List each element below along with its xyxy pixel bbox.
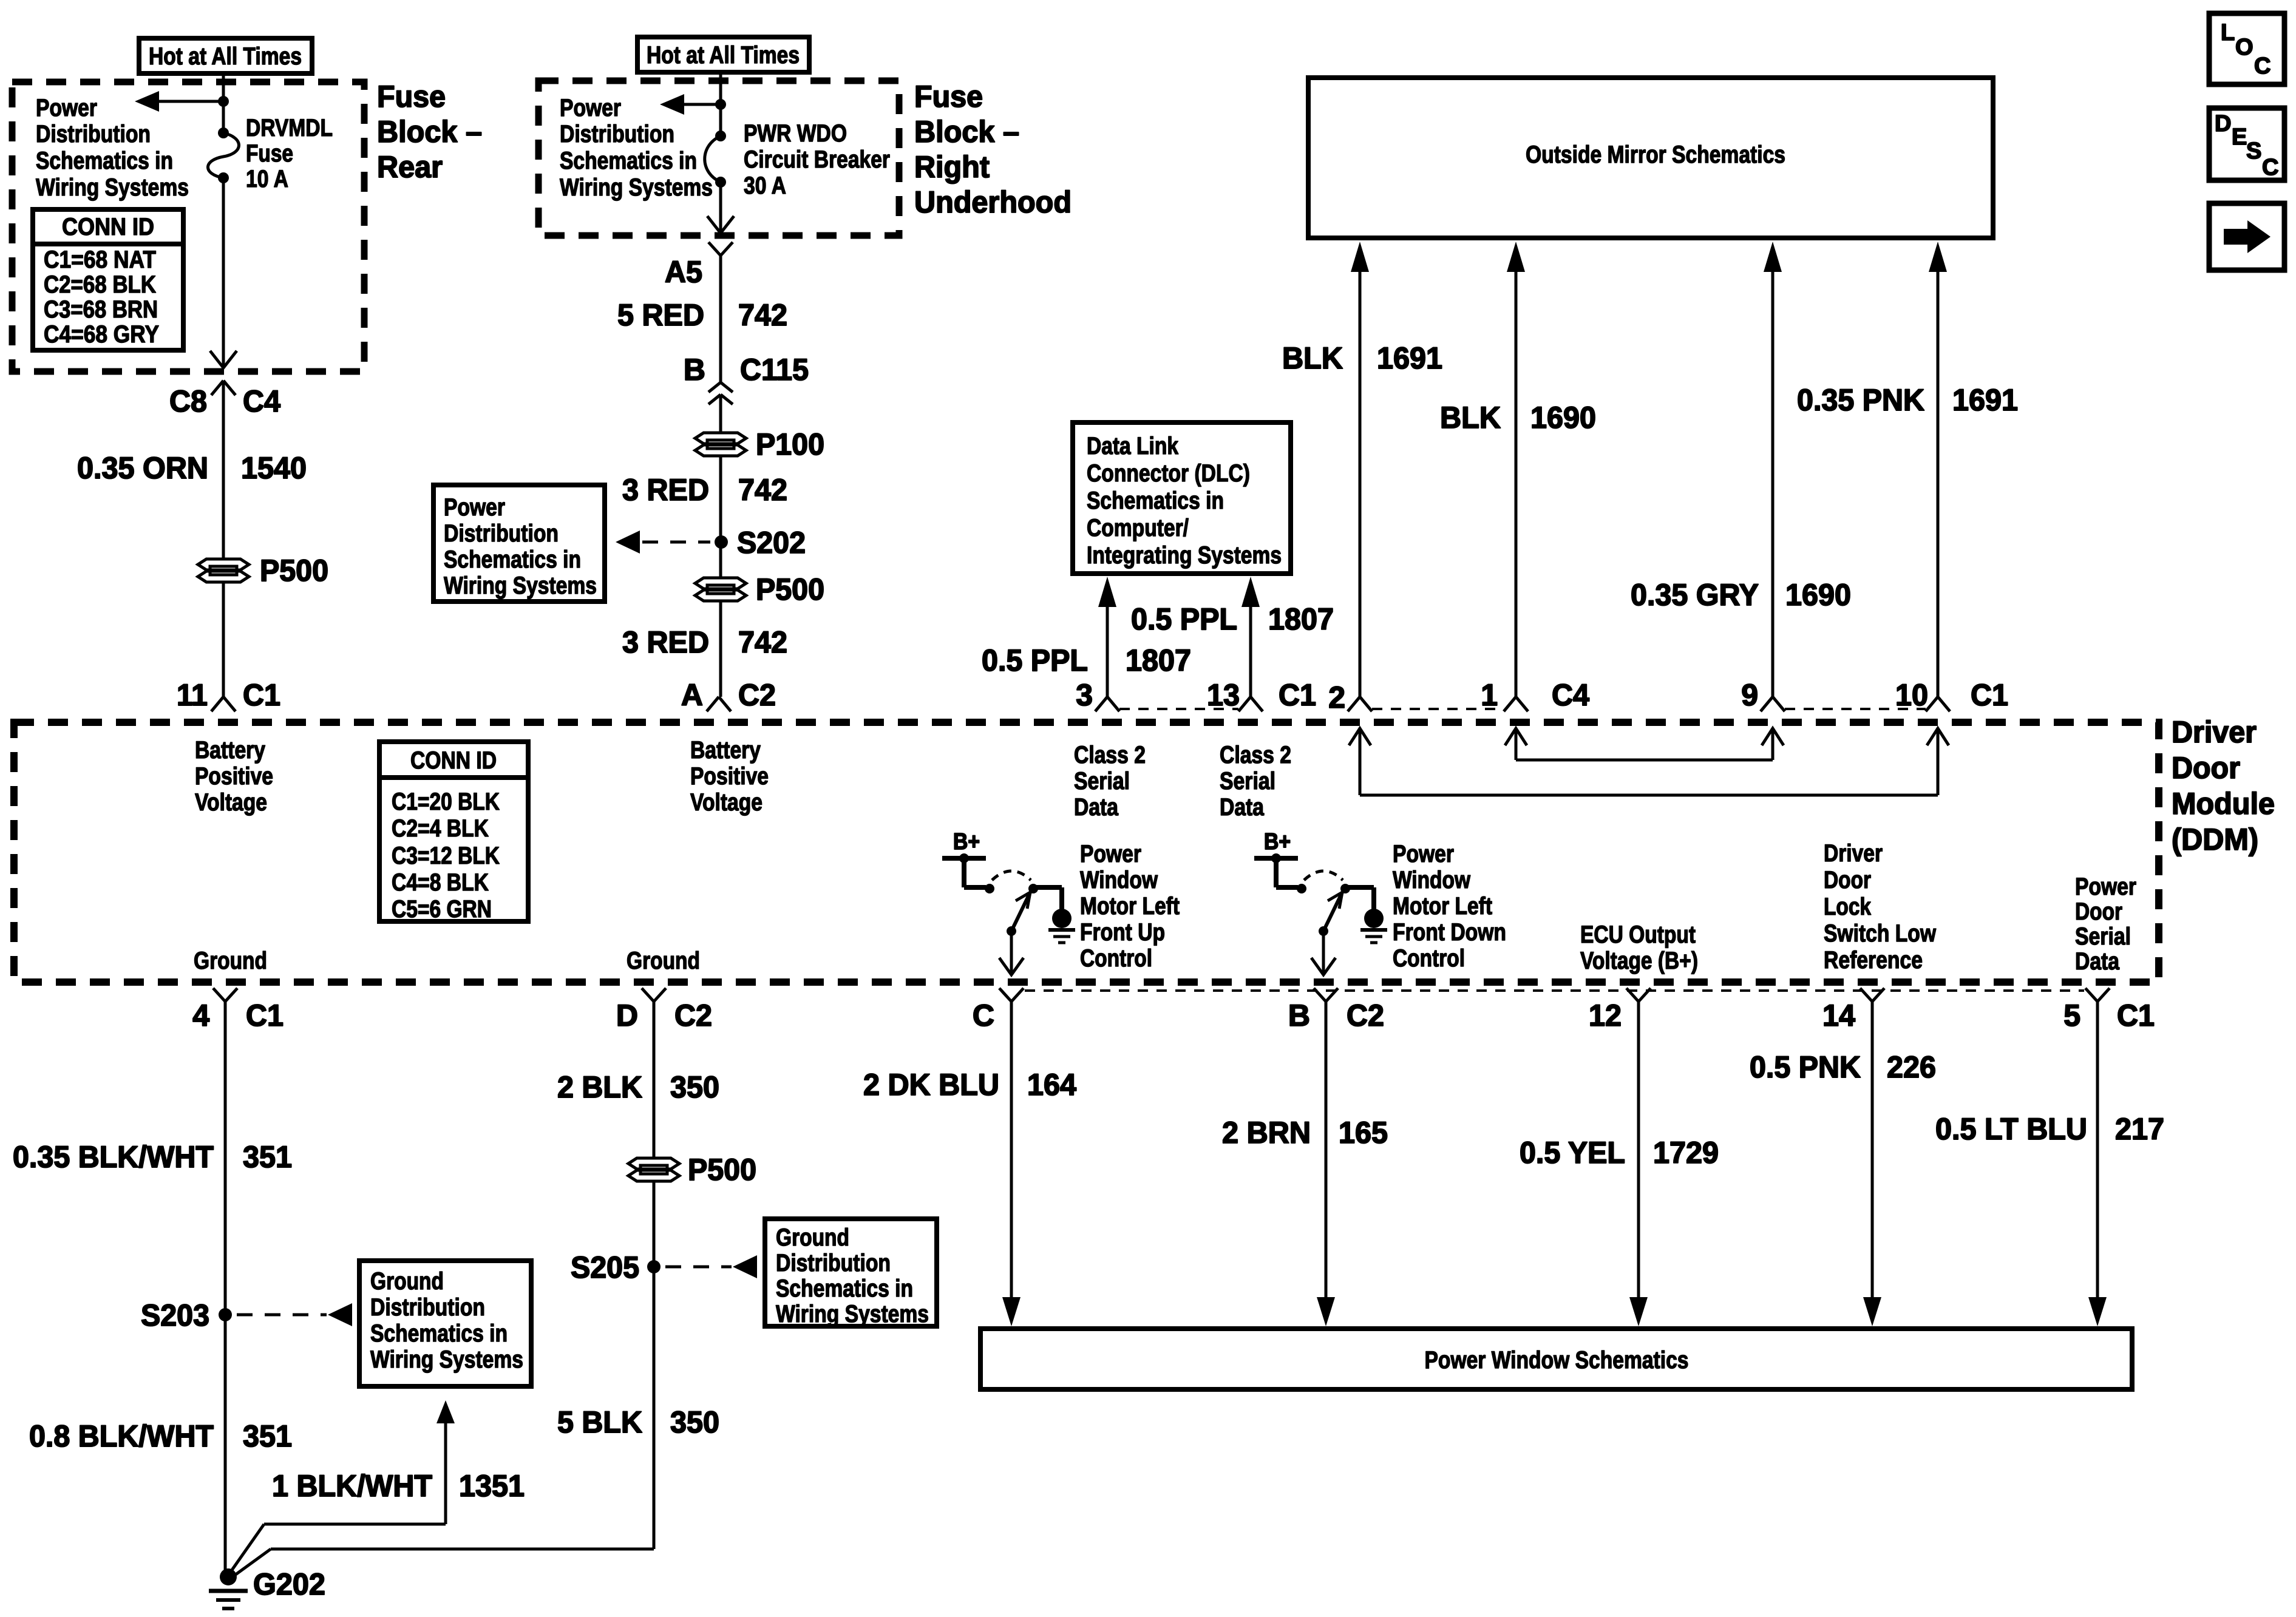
fuse block rear dashed enclosure	[12, 82, 364, 371]
wire pin 3 up to DLC box with arrow	[1098, 577, 1116, 697]
svg-text:C1=20 BLK: C1=20 BLK	[392, 788, 500, 815]
svg-text:Control: Control	[1393, 945, 1465, 972]
connector dashed link pins 3-13	[1119, 708, 1238, 710]
svg-text:Data: Data	[2075, 948, 2120, 975]
svg-text:5 BLK: 5 BLK	[557, 1405, 642, 1439]
ground G202 symbol	[209, 1568, 248, 1609]
svg-text:DRVMDL: DRVMDL	[246, 115, 333, 141]
svg-text:CONN ID: CONN ID	[410, 747, 497, 774]
svg-text:Front Down: Front Down	[1393, 919, 1506, 946]
svg-text:C4=8 BLK: C4=8 BLK	[392, 869, 489, 896]
switch window up control: B+ feed	[942, 829, 986, 887]
svg-text:30 A: 30 A	[744, 172, 786, 199]
wire pin 5 to power window schematics with arrow	[2088, 1002, 2107, 1326]
svg-text:C: C	[973, 998, 994, 1032]
svg-text:0.35 PNK: 0.35 PNK	[1797, 383, 1924, 417]
internal wire switch to pin C with arrow	[999, 931, 1024, 975]
label box "Hot at All Times" (left)	[139, 38, 312, 73]
svg-text:Wiring Systems: Wiring Systems	[560, 174, 713, 201]
svg-text:1807: 1807	[1268, 602, 1334, 636]
wire pin 1 up to mirror box with arrow	[1507, 242, 1525, 697]
svg-text:Block –: Block –	[377, 115, 482, 149]
connector dashed link bottom pins C..5	[1025, 989, 2084, 992]
svg-text:S205: S205	[571, 1250, 639, 1284]
svg-text:0.35 GRY: 0.35 GRY	[1631, 578, 1759, 612]
connector dashed link pins 2-1	[1372, 708, 1504, 710]
svg-text:Front Up: Front Up	[1080, 919, 1165, 946]
svg-text:11: 11	[177, 678, 208, 712]
svg-text:3 RED: 3 RED	[622, 625, 709, 659]
internal up arrow at pin 2	[1349, 728, 1371, 795]
svg-text:Battery: Battery	[690, 737, 761, 764]
svg-text:Voltage: Voltage	[195, 789, 267, 816]
svg-text:4: 4	[192, 998, 209, 1032]
grommet P500 (chain 2)	[695, 578, 746, 601]
svg-text:2 DK BLU: 2 DK BLU	[863, 1068, 999, 1102]
svg-text:351: 351	[243, 1140, 292, 1174]
wire label "BLK 1690"	[1440, 401, 1596, 435]
svg-text:C1: C1	[1971, 678, 2008, 712]
wire breaker to exit of fuse block	[719, 182, 722, 233]
svg-text:Serial: Serial	[1220, 768, 1275, 795]
wire label "5 BLK 350"	[557, 1405, 719, 1439]
note box ground distribution schematics (S205)	[765, 1219, 937, 1327]
svg-text:C2: C2	[738, 678, 776, 712]
svg-text:1690: 1690	[1785, 578, 1851, 612]
svg-text:Power: Power	[560, 95, 621, 121]
svg-text:Ground: Ground	[776, 1224, 849, 1251]
wire 1 BLK/WHT 1351 up into ground note box with arrow	[227, 1400, 455, 1577]
splice S205 junction dot	[647, 1260, 661, 1273]
junction dot on feed wire (chain 2)	[715, 99, 726, 110]
wire label "0.35 BLK/WHT 351"	[13, 1140, 292, 1174]
wire pin 10 up to mirror box with arrow	[1929, 242, 1947, 697]
svg-text:Fuse: Fuse	[246, 140, 293, 167]
wire label "0.35 GRY 1690"	[1631, 578, 1851, 612]
svg-text:5 RED: 5 RED	[617, 298, 704, 332]
svg-text:0.5 LT BLU: 0.5 LT BLU	[1935, 1112, 2087, 1146]
note box Data Link Connector (DLC) schematics	[1073, 422, 1291, 574]
svg-text:Module: Module	[2172, 787, 2275, 821]
svg-text:Power: Power	[2075, 873, 2136, 900]
wire label "0.35 PNK 1691"	[1797, 383, 2018, 417]
svg-text:Schematics in: Schematics in	[370, 1320, 508, 1347]
pin 2 chevron at DDM	[1348, 697, 1372, 711]
switch window down control: contacts and arc	[1297, 871, 1350, 893]
note box ground distribution schematics (S203)	[359, 1261, 531, 1386]
note box power distribution schematics (S202)	[433, 485, 605, 602]
note text power distribution schematics (fuse block rear)	[36, 95, 189, 201]
svg-text:Data: Data	[1220, 794, 1265, 821]
svg-text:C4: C4	[243, 384, 280, 418]
wire P500 to DDM pin A	[719, 600, 722, 697]
ground wire pin 4 to G202	[224, 1002, 227, 1576]
svg-text:S203: S203	[141, 1298, 209, 1332]
svg-text:Ground: Ground	[370, 1268, 444, 1295]
svg-text:226: 226	[1887, 1050, 1936, 1084]
svg-text:Serial: Serial	[2075, 923, 2131, 950]
wire from Hot at All Times down to junction	[222, 73, 225, 133]
svg-text:C1: C1	[246, 998, 284, 1032]
svg-text:Right: Right	[914, 150, 990, 184]
svg-text:350: 350	[670, 1070, 719, 1104]
svg-text:Hot at All Times: Hot at All Times	[149, 43, 302, 70]
svg-text:1540: 1540	[241, 451, 307, 485]
connector dashed link pins 9-10	[1785, 708, 1926, 710]
svg-text:2: 2	[1328, 680, 1345, 714]
wire label "2 DK BLU 164"	[863, 1068, 1076, 1102]
svg-text:0.5 PPL: 0.5 PPL	[1131, 602, 1237, 636]
wire label "0.8 BLK/WHT 351"	[29, 1419, 292, 1453]
internal up arrow at pin 10	[1927, 728, 1949, 795]
node label class 2 serial data (pin 13)	[1220, 742, 1291, 821]
connector C115 double chevron	[708, 382, 733, 404]
svg-text:Battery: Battery	[195, 737, 266, 764]
svg-text:0.5 PNK: 0.5 PNK	[1750, 1050, 1861, 1084]
terminal A5 break chevron	[708, 242, 733, 256]
node label power window motor left front down control	[1393, 841, 1506, 972]
svg-text:Wiring Systems: Wiring Systems	[36, 174, 189, 201]
switch window up control: contacts and arc	[985, 871, 1038, 893]
svg-text:Distribution: Distribution	[560, 121, 674, 147]
pin 12 chevron under DDM	[1626, 988, 1651, 1002]
svg-text:Class 2: Class 2	[1220, 742, 1291, 768]
wire pin C to power window schematics with arrow	[1002, 1002, 1021, 1326]
svg-text:10: 10	[1895, 678, 1928, 712]
svg-text:1807: 1807	[1126, 643, 1191, 677]
svg-text:Door: Door	[1824, 867, 1871, 893]
svg-text:Wiring Systems: Wiring Systems	[370, 1346, 523, 1373]
reference arrow pointing left (chain 2)	[660, 94, 721, 115]
svg-text:Ground: Ground	[627, 947, 700, 974]
svg-text:Voltage: Voltage	[690, 789, 763, 816]
ground wire pin D to P500	[653, 1002, 656, 1159]
pin 9 chevron at DDM	[1761, 697, 1785, 711]
box Power Window Schematics	[980, 1329, 2132, 1389]
svg-text:217: 217	[2115, 1112, 2164, 1146]
pin C chevron under DDM	[999, 988, 1024, 1002]
svg-text:Positive: Positive	[195, 763, 273, 790]
svg-text:Switch Low: Switch Low	[1824, 920, 1937, 947]
svg-text:742: 742	[738, 298, 787, 332]
svg-text:Schematics in: Schematics in	[776, 1275, 913, 1302]
wire P500 down to DDM pin 11	[222, 582, 225, 697]
wire label "BLK 1691"	[1282, 341, 1442, 375]
svg-text:Window: Window	[1393, 867, 1471, 893]
grommet P500 (ground chain)	[628, 1158, 679, 1181]
svg-text:P500: P500	[756, 572, 824, 606]
forward arrow marker box	[2209, 203, 2284, 270]
svg-text:C: C	[2262, 155, 2278, 180]
value label "PWR WDO Circuit Breaker 30 A"	[744, 120, 890, 199]
svg-text:Door: Door	[2172, 751, 2240, 785]
svg-text:Control: Control	[1080, 945, 1152, 972]
open arrowhead leaving fuse block rear	[210, 351, 237, 368]
svg-text:1690: 1690	[1530, 401, 1596, 435]
svg-text:Wiring Systems: Wiring Systems	[444, 572, 597, 599]
svg-text:Power: Power	[444, 494, 505, 521]
svg-text:B: B	[1288, 998, 1310, 1032]
svg-text:C4: C4	[1552, 678, 1589, 712]
node label class 2 serial data (pin 3)	[1074, 742, 1146, 821]
svg-text:C3=12 BLK: C3=12 BLK	[392, 842, 500, 869]
grommet P500 (chain 1)	[198, 559, 249, 582]
svg-text:Motor Left: Motor Left	[1080, 893, 1180, 920]
svg-text:CONN ID: CONN ID	[62, 214, 154, 240]
splice S202 junction dot	[715, 535, 728, 549]
note text power distribution schematics (fuse block right underhood)	[560, 95, 713, 201]
svg-text:350: 350	[670, 1405, 719, 1439]
wire 5 BLK down and left to G202	[231, 1549, 654, 1578]
wire pin 9 up to mirror box with arrow	[1764, 242, 1782, 697]
svg-text:PWR WDO: PWR WDO	[744, 120, 847, 147]
svg-text:Underhood: Underhood	[914, 185, 1072, 219]
svg-text:Connector (DLC): Connector (DLC)	[1087, 460, 1250, 487]
junction dot on feed wire	[218, 96, 229, 107]
wire label "3 RED 742" (upper)	[622, 473, 787, 507]
svg-text:Power Window Schematics: Power Window Schematics	[1425, 1347, 1689, 1374]
svg-text:0.35 BLK/WHT: 0.35 BLK/WHT	[13, 1140, 214, 1174]
wire label "0.5 PNK 226"	[1750, 1050, 1936, 1084]
splice S203 junction dot	[219, 1308, 232, 1321]
switch window up control: movable arm	[1007, 892, 1030, 936]
circuit breaker PWR WDO 30A symbol	[705, 131, 726, 188]
pin 11 chevron at DDM	[211, 697, 236, 711]
svg-text:Positive: Positive	[690, 763, 769, 790]
wire pin 13 up to DLC box with arrow	[1241, 577, 1260, 697]
box Outside Mirror Schematics	[1308, 78, 1993, 238]
wire label "0.35 ORN 1540"	[77, 451, 307, 485]
dashed reference arrow S205 to ground note box	[665, 1255, 757, 1278]
svg-text:C5=6 GRN: C5=6 GRN	[392, 896, 492, 923]
svg-text:Distribution: Distribution	[370, 1294, 485, 1321]
svg-text:Fuse: Fuse	[914, 80, 983, 114]
svg-text:Fuse: Fuse	[377, 80, 446, 114]
svg-text:P100: P100	[756, 427, 824, 461]
wire P100 to splice S202	[719, 455, 722, 542]
svg-text:C2=4 BLK: C2=4 BLK	[392, 815, 489, 842]
svg-text:P500: P500	[688, 1153, 756, 1187]
pin A chevron at DDM	[707, 697, 731, 711]
svg-text:Voltage (B+): Voltage (B+)	[1580, 947, 1698, 974]
svg-text:14: 14	[1822, 998, 1855, 1032]
internal up arrow at pin 9	[1762, 728, 1784, 760]
pin 5 chevron under DDM	[2085, 988, 2110, 1002]
svg-text:Schematics in: Schematics in	[444, 546, 581, 573]
svg-text:C1: C1	[2117, 998, 2155, 1032]
svg-text:Distribution: Distribution	[776, 1250, 891, 1276]
svg-text:Outside Mirror Schematics: Outside Mirror Schematics	[1526, 141, 1785, 168]
svg-text:A: A	[681, 678, 703, 712]
wire from fuse to fuse block exit	[222, 178, 225, 368]
svg-text:0.8 BLK/WHT: 0.8 BLK/WHT	[29, 1419, 214, 1453]
svg-text:C2=68 BLK: C2=68 BLK	[44, 271, 156, 298]
svg-text:Window: Window	[1080, 867, 1158, 893]
svg-text:Hot at All Times: Hot at All Times	[647, 42, 800, 69]
svg-text:Schematics in: Schematics in	[560, 147, 697, 174]
wire pin 14 to power window schematics with arrow	[1863, 1002, 1881, 1326]
svg-text:BLK: BLK	[1282, 341, 1343, 375]
svg-text:Serial: Serial	[1074, 768, 1130, 795]
label "Driver Door Module (DDM)"	[2172, 715, 2275, 856]
svg-text:165: 165	[1339, 1116, 1388, 1150]
wire pin 12 to power window schematics with arrow	[1629, 1002, 1648, 1326]
svg-text:C2: C2	[674, 998, 712, 1032]
dashed reference arrow from S202 to note box	[616, 531, 710, 554]
switch window up control: motor to ground	[1033, 887, 1075, 943]
svg-text:9: 9	[1741, 678, 1758, 712]
svg-text:13: 13	[1207, 678, 1240, 712]
svg-text:Driver: Driver	[1824, 840, 1883, 867]
svg-text:5: 5	[2063, 998, 2080, 1032]
svg-text:Circuit Breaker: Circuit Breaker	[744, 146, 890, 173]
svg-text:Ground: Ground	[194, 947, 267, 974]
svg-text:C1=68 NAT: C1=68 NAT	[44, 246, 156, 273]
svg-text:0.35 ORN: 0.35 ORN	[77, 451, 208, 485]
fuse block right underhood dashed enclosure	[538, 81, 899, 236]
node label power door serial data	[2075, 873, 2136, 975]
internal wire switch to pin B with arrow	[1311, 931, 1336, 975]
svg-text:10 A: 10 A	[246, 166, 288, 192]
svg-text:A5: A5	[665, 255, 702, 289]
svg-text:Power: Power	[1393, 841, 1454, 867]
svg-text:Data Link: Data Link	[1087, 433, 1179, 459]
node label power window motor left front up control	[1080, 841, 1180, 972]
wire label "5 RED 742"	[617, 298, 787, 332]
svg-text:Lock: Lock	[1824, 893, 1872, 920]
wire pin 2 up to mirror box with arrow	[1351, 242, 1369, 697]
svg-text:Schematics in: Schematics in	[36, 147, 173, 174]
wire pin B to power window schematics with arrow	[1317, 1002, 1335, 1326]
pin 3 chevron at DDM	[1095, 697, 1119, 711]
svg-text:1691: 1691	[1377, 341, 1442, 375]
svg-text:C3=68 BRN: C3=68 BRN	[44, 296, 158, 323]
svg-text:P500: P500	[260, 554, 328, 588]
internal link wire pin 2 to pin 10	[1360, 794, 1938, 797]
pin 4 chevron under DDM	[213, 988, 237, 1002]
svg-text:L: L	[2221, 20, 2235, 46]
svg-text:Rear: Rear	[377, 150, 443, 184]
svg-text:2 BRN: 2 BRN	[1222, 1116, 1311, 1150]
svg-text:Block –: Block –	[914, 115, 1019, 149]
svg-text:C1: C1	[243, 678, 280, 712]
internal link wire pin 1 to pin 9	[1516, 759, 1773, 762]
DESC marker box	[2209, 108, 2284, 180]
pin D chevron under DDM	[642, 988, 666, 1002]
svg-text:2 BLK: 2 BLK	[557, 1070, 642, 1104]
svg-text:ECU Output: ECU Output	[1580, 921, 1696, 948]
node label ECU output voltage (B+)	[1580, 921, 1698, 974]
svg-text:Motor Left: Motor Left	[1393, 893, 1492, 920]
wire P500 to S205 and down	[653, 1181, 656, 1549]
svg-text:3 RED: 3 RED	[622, 473, 709, 507]
svg-text:Schematics in: Schematics in	[1087, 487, 1224, 514]
wire C4 to P500	[222, 381, 225, 559]
svg-text:C115: C115	[740, 353, 809, 387]
svg-text:C8: C8	[169, 384, 207, 418]
svg-text:BLK: BLK	[1440, 401, 1501, 435]
svg-text:Power: Power	[36, 95, 97, 121]
svg-text:D: D	[2215, 111, 2231, 137]
node label battery positive voltage (pin 11)	[195, 737, 273, 816]
svg-text:1 BLK/WHT: 1 BLK/WHT	[272, 1469, 432, 1503]
fuse DRVMDL 10A symbol	[208, 127, 239, 183]
svg-text:B+: B+	[1264, 829, 1291, 855]
svg-text:1691: 1691	[1952, 383, 2018, 417]
svg-text:1351: 1351	[459, 1469, 525, 1503]
svg-text:Class 2: Class 2	[1074, 742, 1146, 768]
wire label "0.5 PPL 1807" (pin 13)	[1131, 602, 1334, 636]
svg-text:(DDM): (DDM)	[2172, 822, 2258, 856]
svg-text:C1: C1	[1279, 678, 1316, 712]
connector C8/C4 chevron	[211, 381, 236, 395]
wire label "1 BLK/WHT 1351"	[272, 1469, 525, 1503]
svg-text:Door: Door	[2075, 898, 2122, 925]
svg-text:Power: Power	[1080, 841, 1141, 867]
svg-text:Computer/: Computer/	[1087, 515, 1189, 541]
switch window down control: movable arm	[1319, 892, 1342, 936]
svg-text:S: S	[2246, 138, 2261, 164]
CONN ID table (fuse block rear)	[33, 209, 183, 350]
CONN ID table (DDM)	[379, 742, 528, 923]
svg-text:S202: S202	[737, 526, 806, 560]
svg-text:C: C	[2254, 53, 2271, 79]
svg-text:3: 3	[1076, 678, 1093, 712]
reference arrow pointing left to power distribution note	[135, 91, 223, 112]
pin 10 chevron at DDM	[1926, 697, 1950, 711]
svg-text:164: 164	[1027, 1068, 1076, 1102]
label box "Hot at All Times" (middle)	[637, 37, 809, 72]
svg-text:Integrating Systems: Integrating Systems	[1087, 542, 1282, 569]
svg-text:0.5 PPL: 0.5 PPL	[982, 643, 1088, 677]
node label battery positive voltage (pin A)	[690, 737, 769, 816]
svg-text:Distribution: Distribution	[36, 121, 151, 147]
wire label "2 BRN 165"	[1222, 1116, 1388, 1150]
wire label "0.5 PPL 1807" (pin 3)	[982, 643, 1191, 677]
svg-text:D: D	[616, 998, 638, 1032]
svg-text:C4=68 GRY: C4=68 GRY	[44, 321, 159, 348]
wire label "2 BLK 350"	[557, 1070, 719, 1104]
wire from Hot at All Times down to breaker	[719, 72, 722, 136]
svg-text:Reference: Reference	[1824, 947, 1923, 974]
wire label "3 RED 742" (lower)	[622, 625, 787, 659]
svg-text:12: 12	[1589, 998, 1622, 1032]
svg-text:742: 742	[738, 473, 787, 507]
switch window down control: motor to ground	[1345, 887, 1387, 943]
open arrowhead leaving fuse block right underhood	[707, 216, 734, 233]
switch window down control: B+ feed	[1254, 829, 1298, 887]
svg-text:0.5 YEL: 0.5 YEL	[1520, 1136, 1625, 1170]
pin 14 chevron under DDM	[1860, 988, 1884, 1002]
pin 13 chevron at DDM	[1238, 697, 1263, 711]
svg-text:Distribution: Distribution	[444, 520, 559, 547]
wire S202 to P500	[719, 542, 722, 578]
dashed reference arrow S203 to ground note box	[237, 1303, 352, 1326]
svg-text:Wiring Systems: Wiring Systems	[776, 1301, 929, 1327]
svg-text:E: E	[2232, 124, 2247, 150]
svg-text:C2: C2	[1347, 998, 1384, 1032]
LOC marker box	[2209, 13, 2284, 84]
svg-text:G202: G202	[253, 1567, 325, 1601]
wire A5 to connector C115	[719, 256, 722, 382]
wire label "0.5 LT BLU 217"	[1935, 1112, 2164, 1146]
svg-text:O: O	[2235, 35, 2254, 60]
svg-text:B+: B+	[953, 829, 980, 855]
pin B chevron under DDM	[1314, 988, 1338, 1002]
svg-text:351: 351	[243, 1419, 292, 1453]
DDM dashed enclosure	[14, 722, 2159, 982]
wire C115 to P100	[719, 395, 722, 433]
